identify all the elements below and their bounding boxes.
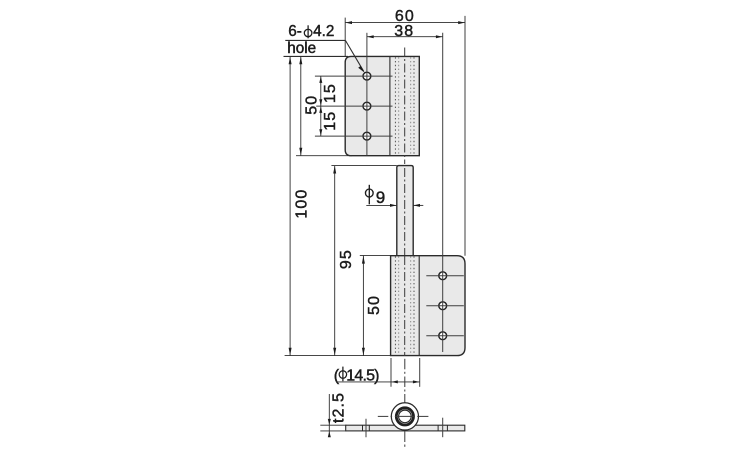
svg-text:100: 100: [294, 189, 311, 219]
hole 6 bottom leaf: [439, 332, 447, 340]
hinge axis center line lower plan: [404, 256, 406, 356]
top leaf plate (plan view): [345, 56, 419, 155]
dimension 15 arrow bottom: [319, 129, 322, 136]
dimension 50 bottom arrow up: [362, 256, 365, 264]
top knuckle hidden line right outer: [413, 57, 415, 155]
hole column center line bottom leaf: [442, 33, 444, 352]
dimension 60 extension line right: [464, 16, 466, 256]
pin center line: [404, 168, 406, 256]
svg-text:9: 9: [376, 188, 385, 207]
top knuckle hidden line left inner: [398, 57, 400, 155]
hole 3 top leaf: [363, 132, 371, 140]
dimension 50 top arrow down: [299, 148, 302, 156]
pin (middle section): [397, 166, 413, 256]
pin cross-section bold ring: [396, 408, 413, 425]
hinge axis center line upper: [404, 48, 406, 165]
bottom view axis center line: [404, 359, 406, 370]
hole 1 horizontal center line: [315, 75, 393, 77]
top knuckle hidden line right inner: [410, 57, 412, 155]
pin bore inner circle: [399, 410, 412, 423]
dimension 50 top arrow up: [299, 57, 302, 65]
dimension phi9 right line: [413, 204, 423, 206]
bottom view horizontal center line dash d: [417, 415, 428, 417]
hole 4 horizontal center line: [426, 275, 464, 277]
dimension 60 line: [345, 22, 465, 24]
svg-text:15: 15: [322, 83, 339, 103]
bottom knuckle hidden line left inner: [398, 256, 400, 355]
dimension 100 top arrow: [289, 57, 292, 65]
svg-text:4.2: 4.2: [313, 23, 334, 40]
dimension 50 bottom line: [362, 256, 364, 356]
dimension phi14.5 extension left: [390, 358, 392, 387]
top leaf bend line: [389, 57, 391, 155]
plate top extension / hole underline: [284, 55, 349, 57]
label leader diagonal: [345, 40, 363, 71]
svg-text:50: 50: [304, 95, 321, 115]
label underline top: [285, 39, 345, 41]
dimension 15 middle arrow up: [319, 106, 322, 113]
dimension 60 right arrow: [458, 21, 465, 24]
dimension 60 left arrow: [345, 21, 352, 24]
bottom view horizontal center line dash a: [378, 415, 389, 417]
bottom knuckle hidden line right outer: [413, 256, 415, 355]
t2.5 extension line bottom: [320, 430, 346, 432]
svg-text:hole: hole: [287, 40, 316, 57]
bottom view horizontal center line dash c: [395, 415, 415, 417]
dimension phi14.5 extension right: [419, 358, 421, 387]
hole 5 horizontal center line: [426, 305, 464, 307]
hole column center line top leaf: [366, 33, 368, 156]
bottom knuckle hidden line left outer: [394, 256, 396, 355]
hole 2 horizontal center line: [316, 105, 392, 107]
dimension phi14.5 symbol: [339, 371, 346, 379]
dimension 50 top line: [300, 56, 302, 155]
svg-text:6-: 6-: [288, 23, 302, 40]
knuckle outer circle: [391, 403, 418, 430]
t2.5 arrow down: [328, 419, 331, 425]
t2.5 extension line top: [320, 424, 346, 426]
side view left hole edge left: [362, 425, 364, 431]
dimension 95 line: [334, 166, 336, 356]
side view right hole edge left: [437, 425, 439, 431]
dimension 15 arrow top: [319, 76, 322, 83]
bottom view horizontal center line dot b: [391, 415, 393, 417]
side view left hole center mark: [365, 419, 367, 437]
bottom leaf top extension line: [360, 254, 391, 256]
dimension phi9 underline and left arrow line: [366, 204, 396, 206]
svg-text:50: 50: [366, 295, 383, 315]
side view right hole center mark: [442, 418, 444, 438]
side view right hole edge right: [446, 425, 448, 431]
label leader arrow: [358, 66, 365, 73]
dimension 100 line: [289, 56, 291, 355]
hole 1 top leaf: [363, 72, 371, 80]
pin top extension line: [331, 165, 396, 167]
hole 5 bottom leaf: [439, 302, 447, 310]
bottom knuckle hidden line right inner: [410, 256, 412, 355]
label phi symbol of 6-phi4.2: [304, 29, 312, 36]
top knuckle hidden line left outer: [394, 57, 396, 155]
dimension 38 left arrow: [367, 35, 374, 38]
dimension phi14.5 left arrow: [391, 380, 398, 383]
t2.5 dimension line: [328, 394, 330, 437]
dimension 50 bottom arrow down: [362, 348, 365, 356]
dimension 15 middle arrow down: [319, 99, 322, 106]
svg-text:38: 38: [394, 23, 414, 40]
dimension 38 right arrow: [436, 35, 443, 38]
hole 3 horizontal center line: [315, 135, 393, 137]
dimension phi14.5 line: [336, 381, 420, 383]
dimension 38 line: [367, 36, 443, 38]
svg-text:t2.5: t2.5: [331, 392, 348, 423]
dimension 60 extension line left: [344, 18, 346, 57]
dimension phi9 symbol: [365, 189, 373, 197]
plate bottom extension line: [296, 155, 352, 157]
dimension 15 line: [320, 76, 322, 136]
t2.5 arrow up: [328, 431, 331, 437]
dimension 100 bottom arrow: [289, 348, 292, 356]
dimension phi9 left arrow: [390, 204, 397, 207]
hole 6 horizontal center line: [426, 335, 464, 337]
bottom-most extension line: [285, 355, 391, 357]
bottom leaf bend line: [418, 256, 420, 355]
bottom leaf plate (plan view): [391, 256, 465, 356]
svg-text:95: 95: [338, 249, 355, 269]
hole 2 top leaf: [363, 102, 371, 110]
svg-text:15: 15: [322, 111, 339, 131]
dimension 95 bottom arrow: [333, 348, 336, 356]
dimension phi9 right arrow: [413, 204, 420, 207]
dimension 95 top arrow: [333, 166, 336, 174]
side view left hole edge right: [368, 425, 370, 431]
bottom view plate strip: [346, 425, 465, 431]
dimension phi14.5 right arrow: [413, 380, 420, 383]
hole 4 bottom leaf: [439, 272, 447, 280]
